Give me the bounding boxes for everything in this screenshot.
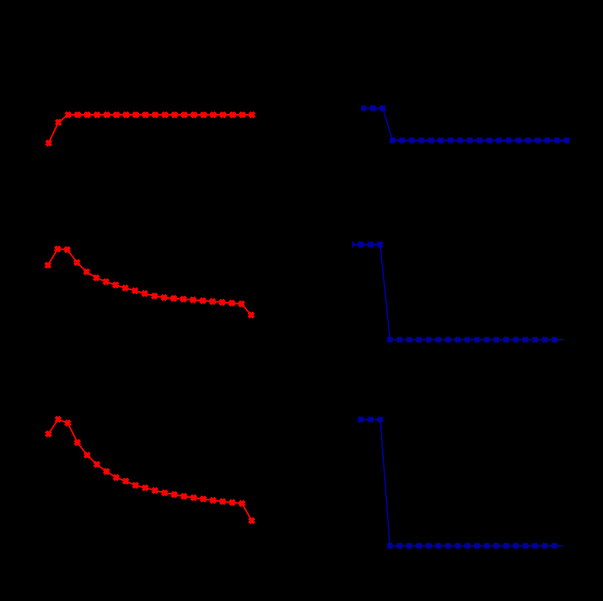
blue series 2 (middle-right) markers: [349, 242, 557, 342]
red series 1 (top-left) markers: [46, 112, 254, 145]
red series 3 (bottom-left) line: [48, 419, 251, 520]
red series 1 (top-left) line: [49, 115, 252, 143]
blue series 1 (top-right) markers: [361, 106, 569, 143]
red series 2 (middle-left) markers: [45, 247, 253, 318]
blue series 2 (middle-right) line: [351, 245, 564, 340]
red series 2 (middle-left) line: [48, 249, 251, 315]
red series 3 (bottom-left) markers: [46, 417, 254, 523]
blue series 1 (top-right) line: [363, 108, 566, 140]
blue series 3 (bottom-right) markers: [359, 417, 557, 548]
blue series 3 (bottom-right) line: [361, 420, 564, 546]
